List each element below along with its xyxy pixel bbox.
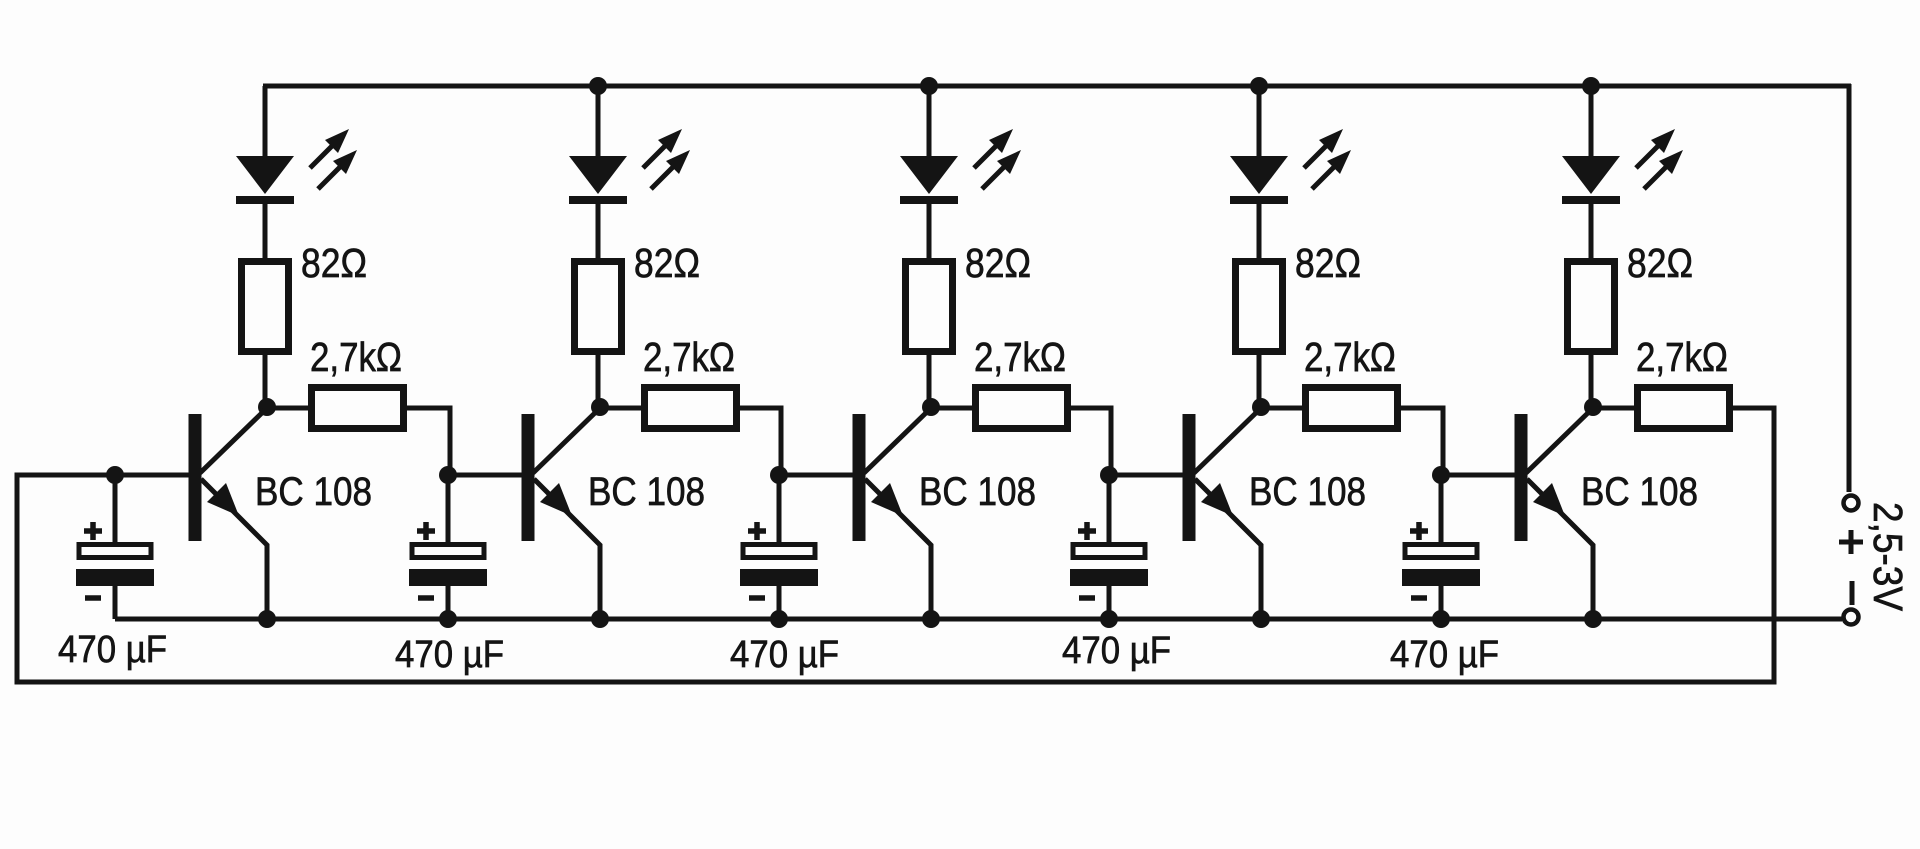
svg-text:2,7kΩ: 2,7kΩ: [310, 334, 402, 380]
capacitor C1 positive plate: [79, 545, 151, 558]
resistor 82R (stage 3) body: [906, 262, 953, 352]
wire: 82R to collector node (stage 3): [927, 351, 932, 407]
wire: base of Q1: [113, 473, 189, 478]
wire: 82R to collector node (stage 4): [1257, 351, 1262, 407]
transistor Q1 emitter lead: [201, 479, 267, 619]
wire: 2,7k output to base junction of stage 5: [1399, 408, 1443, 475]
wire: +V top supply rail: [263, 84, 1851, 89]
wire: feedback loop from R10 (2,7k) of stage 5 around bottom to base of Q1: [17, 408, 1774, 682]
capacitor C5 positive plate: [1405, 545, 1477, 558]
svg-text:82Ω: 82Ω: [1627, 240, 1693, 286]
LED D5 light emission arrows: [1636, 129, 1683, 189]
LED D2 light emission arrows: [643, 129, 690, 189]
capacitor C3 positive plate: [743, 545, 815, 558]
wire: +V rail to LED D2 anode (stage 2): [596, 86, 601, 160]
node: collector of Q1: [258, 398, 276, 416]
wire: collector node to 2,7k resistor (stage 1): [267, 406, 313, 411]
wire: bottom emitter rail (0V): [115, 617, 1842, 622]
wire: base junction to capacitor C1 plus plate: [113, 475, 118, 545]
svg-text:470 µF: 470 µF: [730, 634, 839, 676]
wire: 2,7k output to base junction of stage 2: [405, 408, 450, 475]
capacitor C4 minus polarity mark: [1079, 595, 1095, 601]
transistor Q5 BC 108 base bar: [1515, 414, 1528, 541]
terminal: + supply (open circle): [1844, 496, 1859, 511]
LED D5 (triangle + cathode bar): [1562, 156, 1620, 204]
node: capacitor C5 on 0V rail: [1432, 610, 1450, 628]
wire: right supply drop to + terminal: [1847, 84, 1852, 492]
transistor Q4 emitter arrow: [1201, 483, 1233, 516]
node: top rail junction stage 2: [589, 77, 607, 95]
wire: +V rail to LED D5 anode (stage 5): [1589, 86, 1594, 160]
capacitor C2 positive plate: [412, 545, 484, 558]
capacitor C4 positive plate: [1073, 545, 1145, 558]
node: emitter of Q4 on 0V rail: [1252, 610, 1270, 628]
wire: capacitor C2 to 0V rail: [446, 586, 451, 619]
node: top rail junction stage 3: [920, 77, 938, 95]
capacitor C1 negative plate: [76, 569, 154, 586]
capacitor C3 plus polarity mark: [748, 522, 766, 540]
resistor 82R (stage 4) body: [1236, 262, 1283, 352]
node: top rail junction stage 5: [1582, 77, 1600, 95]
capacitor C2 plus polarity mark: [417, 522, 435, 540]
resistor 2,7k (stage 4) body: [1306, 388, 1398, 429]
wire: LED D1 cathode to resistor 82R (stage 1): [263, 200, 268, 262]
node: collector of Q4: [1252, 398, 1270, 416]
svg-text:82Ω: 82Ω: [301, 240, 367, 286]
wire: base junction to capacitor C5 plus plate: [1439, 475, 1444, 545]
capacitor C1 minus polarity mark: [85, 595, 101, 601]
transistor Q5 collector lead: [1526, 408, 1593, 473]
transistor Q1 BC 108 base bar: [189, 414, 202, 541]
LED D2 (triangle + cathode bar): [569, 156, 627, 204]
wire: capacitor C5 to 0V rail: [1439, 586, 1444, 619]
LED D1 light emission arrows: [310, 129, 357, 189]
svg-text:470 µF: 470 µF: [1390, 634, 1499, 676]
LED D4 (triangle + cathode bar): [1230, 156, 1288, 204]
wire: collector node to 2,7k resistor (stage 2): [600, 406, 646, 411]
transistor Q1 collector lead: [200, 408, 267, 473]
wire: 82R to collector node (stage 2): [596, 351, 601, 407]
wire: +V rail to LED D4 anode (stage 4): [1257, 86, 1262, 160]
wire: capacitor C4 to 0V rail: [1107, 586, 1112, 619]
wire: 82R to collector node (stage 5): [1589, 351, 1594, 407]
resistor 82R (stage 2) body: [575, 262, 622, 352]
wire: 2,7k output to base junction of stage 4: [1069, 408, 1111, 475]
node: base junction of Q1 (RC input): [106, 466, 124, 484]
wire: base of Q4: [1107, 473, 1183, 478]
wire: LED D2 cathode to resistor 82R (stage 2): [596, 200, 601, 262]
node: base junction of Q2 (RC input): [439, 466, 457, 484]
transistor Q4 emitter lead: [1195, 479, 1261, 619]
svg-text:2,7kΩ: 2,7kΩ: [1304, 334, 1396, 380]
node: emitter of Q2 on 0V rail: [591, 610, 609, 628]
transistor Q3 BC 108 base bar: [853, 414, 866, 541]
node: top rail junction stage 4: [1250, 77, 1268, 95]
transistor Q3 emitter lead: [865, 479, 931, 619]
transistor Q4 collector lead: [1194, 408, 1261, 473]
LED D3 (triangle + cathode bar): [900, 156, 958, 204]
node: collector of Q5: [1584, 398, 1602, 416]
svg-text:470 µF: 470 µF: [395, 634, 504, 676]
node: emitter of Q3 on 0V rail: [922, 610, 940, 628]
capacitor C2 minus polarity mark: [418, 595, 434, 601]
wire: collector node to 2,7k resistor (stage 3): [931, 406, 977, 411]
wire: collector node to 2,7k resistor (stage 5): [1593, 406, 1639, 411]
transistor Q5 emitter arrow: [1533, 483, 1565, 516]
resistor 2,7k (stage 2) body: [645, 388, 737, 429]
svg-text:2,7kΩ: 2,7kΩ: [974, 334, 1066, 380]
resistor 2,7k (stage 5) body: [1638, 388, 1730, 429]
transistor Q2 emitter lead: [534, 479, 600, 619]
LED D3 light emission arrows: [974, 129, 1021, 189]
node: collector of Q2: [591, 398, 609, 416]
transistor Q2 collector lead: [533, 408, 600, 473]
node: base junction of Q4 (RC input): [1100, 466, 1118, 484]
wire: capacitor C3 to 0V rail: [777, 586, 782, 619]
wire: base of Q3: [777, 473, 853, 478]
capacitor C1 plus polarity mark: [84, 522, 102, 540]
svg-text:82Ω: 82Ω: [965, 240, 1031, 286]
resistor 2,7k (stage 3) body: [976, 388, 1068, 429]
svg-text:BC 108: BC 108: [1581, 470, 1698, 514]
transistor Q3 emitter arrow: [871, 483, 903, 516]
wire: LED D3 cathode to resistor 82R (stage 3): [927, 200, 932, 262]
svg-text:BC 108: BC 108: [255, 470, 372, 514]
LED D1 (triangle + cathode bar): [236, 156, 294, 204]
resistor 2,7k (stage 1) body: [312, 388, 404, 429]
transistor Q1 emitter arrow: [207, 483, 239, 516]
wire: 2,7k output to base junction of stage 3: [738, 408, 781, 475]
node: capacitor C2 on 0V rail: [439, 610, 457, 628]
wire: capacitor C1 to 0V rail: [113, 586, 118, 619]
transistor Q4 BC 108 base bar: [1183, 414, 1196, 541]
LED D4 light emission arrows: [1304, 129, 1351, 189]
wire: LED D4 cathode to resistor 82R (stage 4): [1257, 200, 1262, 262]
terminal: - supply (open circle): [1844, 610, 1859, 625]
wire: base junction to capacitor C3 plus plate: [777, 475, 782, 545]
capacitor C2 negative plate: [409, 569, 487, 586]
svg-text:2,5-3V: 2,5-3V: [1865, 502, 1911, 612]
svg-text:470 µF: 470 µF: [1062, 630, 1171, 672]
wire: 82R to collector node (stage 1): [263, 351, 268, 407]
transistor Q5 emitter lead: [1527, 479, 1593, 619]
transistor Q3 collector lead: [864, 408, 931, 473]
capacitor C3 minus polarity mark: [749, 595, 765, 601]
svg-text:BC 108: BC 108: [1249, 470, 1366, 514]
wire: base of Q2: [446, 473, 522, 478]
transistor Q2 BC 108 base bar: [522, 414, 535, 541]
capacitor C4 negative plate: [1070, 569, 1148, 586]
wire: collector node to 2,7k resistor (stage 4): [1261, 406, 1307, 411]
wire: base junction to capacitor C2 plus plate: [446, 475, 451, 545]
capacitor C5 negative plate: [1402, 569, 1480, 586]
capacitor C5 plus polarity mark: [1410, 522, 1428, 540]
node: collector of Q3: [922, 398, 940, 416]
svg-text:82Ω: 82Ω: [1295, 240, 1361, 286]
node: capacitor C3 on 0V rail: [770, 610, 788, 628]
node: base junction of Q5 (RC input): [1432, 466, 1450, 484]
svg-text:82Ω: 82Ω: [634, 240, 700, 286]
supply + polarity symbol: [1839, 530, 1863, 554]
node: emitter of Q5 on 0V rail: [1584, 610, 1602, 628]
resistor 82R (stage 1) body: [242, 262, 289, 352]
svg-text:BC 108: BC 108: [919, 470, 1036, 514]
supply - polarity symbol: [1850, 581, 1855, 605]
wire: +V rail to LED D1 anode (stage 1): [263, 86, 268, 160]
capacitor C4 plus polarity mark: [1078, 522, 1096, 540]
transistor Q2 emitter arrow: [540, 483, 572, 516]
svg-text:470 µF: 470 µF: [58, 629, 167, 671]
wire: base of Q5: [1439, 473, 1515, 478]
capacitor C3 negative plate: [740, 569, 818, 586]
wire: +V rail to LED D3 anode (stage 3): [927, 86, 932, 160]
wire: LED D5 cathode to resistor 82R (stage 5): [1589, 200, 1594, 262]
node: base junction of Q3 (RC input): [770, 466, 788, 484]
node: capacitor C4 on 0V rail: [1100, 610, 1118, 628]
svg-text:2,7kΩ: 2,7kΩ: [643, 334, 735, 380]
resistor 82R (stage 5) body: [1568, 262, 1615, 352]
capacitor C5 minus polarity mark: [1411, 595, 1427, 601]
wire: base junction to capacitor C4 plus plate: [1107, 475, 1112, 545]
svg-text:BC 108: BC 108: [588, 470, 705, 514]
svg-text:2,7kΩ: 2,7kΩ: [1636, 334, 1728, 380]
node: emitter of Q1 on 0V rail: [258, 610, 276, 628]
